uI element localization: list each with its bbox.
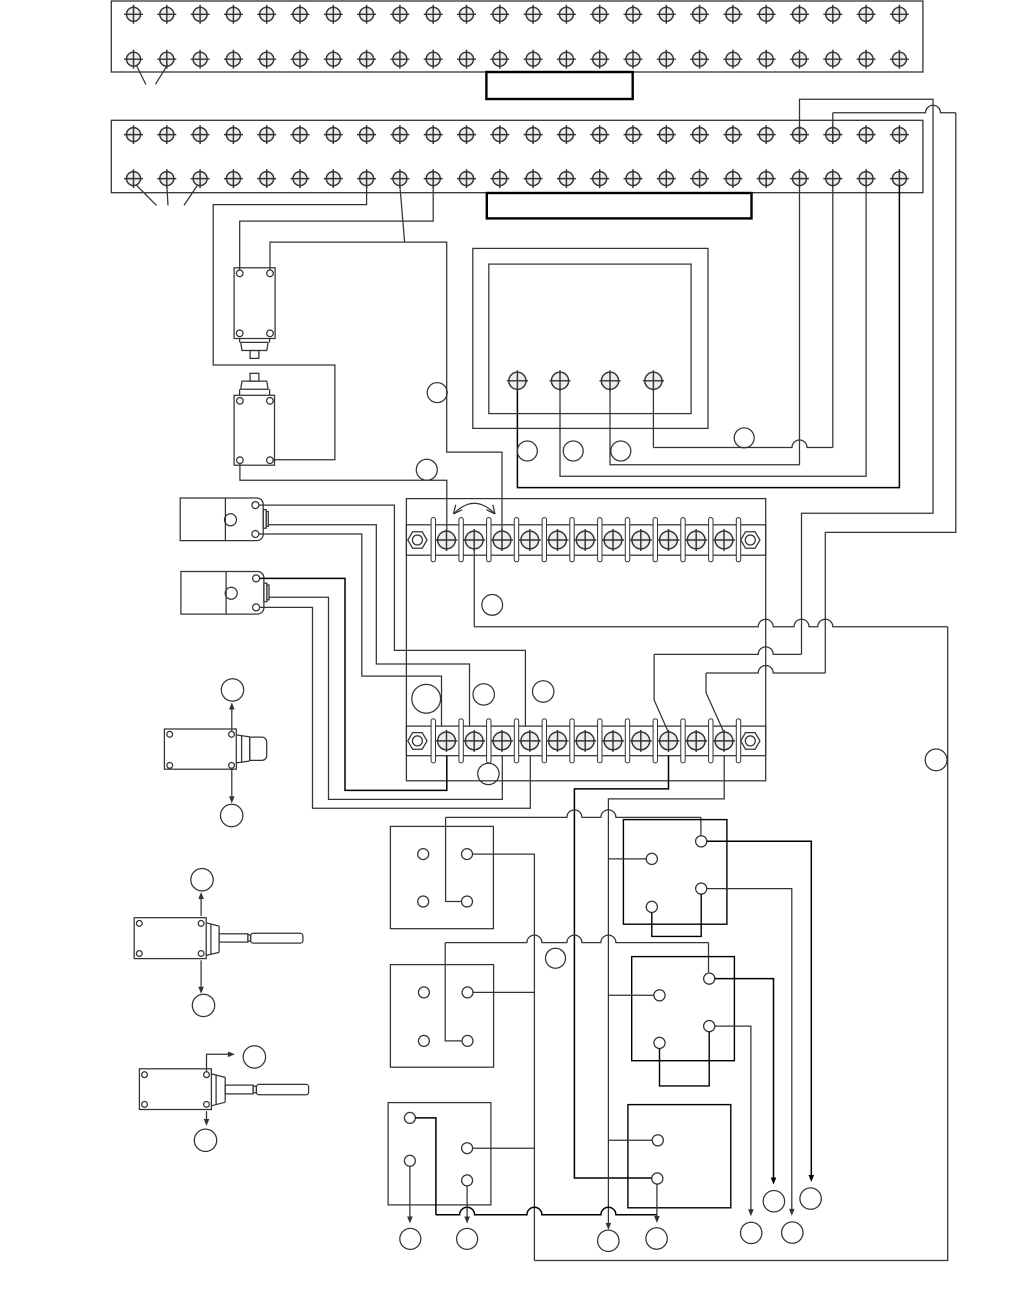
PS1 pin bottom <box>252 531 259 538</box>
arrow into callout circle from bus <box>606 1223 612 1230</box>
L2 pins <box>418 987 473 1047</box>
callout circle below LS3 <box>221 804 243 826</box>
callout circle below LS5 <box>194 1129 216 1151</box>
proximity sensor PS1 body <box>180 498 263 541</box>
limit switch LS3 body <box>164 729 236 769</box>
leader tick TB1-t1 <box>136 65 146 84</box>
limit switch LS2 body <box>234 395 274 465</box>
wire TS2 T9 to relay R3 lower pin <box>574 756 668 1178</box>
R1 U jumper bottom-left to mid-right <box>652 894 701 936</box>
callout circle above LS4 <box>191 869 213 891</box>
LS2 plunger <box>240 373 270 395</box>
L1 pins <box>418 849 473 907</box>
terminal strip TS2 bar <box>406 726 765 756</box>
callout circle above TS2 left <box>412 684 441 713</box>
PS2 connector <box>264 583 269 602</box>
proximity sensor PS2 body <box>181 572 264 615</box>
wire TS1 T2 down-right to bottom loop <box>473 549 475 627</box>
callout circle below TS2 <box>478 763 499 784</box>
PS2 pin bottom <box>253 604 260 611</box>
TS2 separator bars <box>431 719 741 763</box>
LS5 arrow down <box>204 1111 210 1126</box>
wire PS1 connector to TS2 T2 (from above) <box>268 525 469 726</box>
LS4 mounting holes <box>136 921 204 957</box>
callout circle right of LS5 arrow <box>243 1046 265 1068</box>
wire TB2 b21 to display T3 <box>610 186 800 465</box>
wire R1 left pin tap to bus 608 <box>608 858 646 860</box>
LS5 rod <box>225 1085 253 1094</box>
callout circle below R3 <box>646 1228 667 1249</box>
wire B drop to strip4 T11 <box>706 673 724 733</box>
L3 pins <box>404 1112 472 1186</box>
LS1 mounting holes <box>236 270 273 337</box>
LS5 arrow up-right <box>207 1054 229 1071</box>
wire R2 mid-right pin to bottom callout <box>715 1026 751 1213</box>
wire LS2 bottom-left to strip3 T1 <box>240 464 447 532</box>
R2 U jumper bottom-left to mid-right <box>660 1032 710 1086</box>
terminal box TB2 <box>111 120 923 192</box>
wire R2 top-right pin to bottom callout <box>715 979 774 1182</box>
wire PS2 top pin to TS2 T1 (from below) <box>260 578 447 790</box>
wire L2 bottom-right pin to relay R2 top-right pin <box>445 943 462 1041</box>
wire R2 left pin tap to bus 608 <box>608 994 654 996</box>
PS1 center hole <box>225 514 237 526</box>
terminal box TB1 <box>111 1 923 72</box>
LS2 mounting holes <box>237 398 274 464</box>
callout circle below LS4 <box>192 994 214 1016</box>
wire L1 bottom-right pin to relay R1 top-right pin <box>446 817 462 901</box>
wire L1 top-right pin to bus 534 (to bottom loop) <box>473 854 535 1260</box>
callout circle on display wire 4 <box>734 428 754 448</box>
wire L2 top-right pin tap to bus 534 <box>473 991 534 993</box>
relay box R1 <box>623 820 727 925</box>
wire A hop section at outer box edge <box>654 647 801 654</box>
LS3 plunger cap <box>250 737 267 760</box>
LS3 arrow up <box>229 703 235 732</box>
TB1 terminal row 2 <box>124 50 909 69</box>
wire TS2 T11 down to bus <box>608 756 724 1227</box>
wire PS2 connector to TS2 T3 (from below) <box>269 597 502 799</box>
R3 pins <box>652 1135 664 1184</box>
LS3 arrow down <box>229 768 235 803</box>
relay box R3 <box>628 1105 731 1208</box>
PS2 center hole <box>225 587 237 599</box>
R1 pins <box>646 836 707 913</box>
display terminal D3 <box>599 370 620 391</box>
wire R1 mid-right pin to bottom callout <box>707 889 792 1213</box>
limit switch LS4 body <box>134 918 206 959</box>
wire TB2 b23 to display T2 <box>560 186 866 476</box>
callout circle under R2 wire 2 <box>741 1222 762 1243</box>
outer box around terminal strips <box>406 499 765 781</box>
wire B: TB2 top terminal 22 to strip4 T11 <box>833 105 956 113</box>
curved double arrow over TS1 <box>454 503 496 514</box>
leader tick TB2-t2 <box>167 186 168 205</box>
TS1 right hex nut <box>741 532 760 549</box>
PS1 divider <box>224 498 226 541</box>
LS5 collar <box>211 1074 225 1106</box>
wire A: TB2 top terminal 21 to strip4 T9 <box>800 99 934 654</box>
relay box R2 <box>632 957 735 1061</box>
terminal strip TS1 bar <box>406 525 765 555</box>
callout circle below L3 left <box>400 1228 421 1249</box>
wire B hop section at outer box edge <box>706 666 825 674</box>
wire L3 top-left pin to R3 arrow line <box>415 1118 436 1215</box>
limit switch LS1 body <box>234 268 275 339</box>
LS3 mounting holes <box>167 731 235 768</box>
callout circle below L3 right <box>457 1228 478 1249</box>
leader tick TB2-t3 <box>184 185 198 206</box>
wire TB2 b22 to display T4 (hops over b21 wire) <box>832 186 834 448</box>
callout circle under R2 wire 1 <box>763 1191 784 1212</box>
PS2 divider <box>225 572 227 615</box>
PS1 pin top <box>252 502 259 509</box>
callout circle on display wire 1 <box>517 441 537 461</box>
wire TB2 b24 to display T1 <box>517 186 899 488</box>
LS4 arrow up <box>198 892 204 916</box>
label box B <box>487 193 752 218</box>
TB1 terminal row 1 <box>124 5 909 24</box>
TS1 separator bars <box>431 518 741 562</box>
display terminal D2 <box>549 370 570 391</box>
TB2 terminal row 2 <box>124 169 909 188</box>
LS4 rod <box>219 934 248 942</box>
TS2 screw terminals <box>436 730 736 752</box>
display terminal D1 <box>507 370 528 391</box>
LS5 mounting holes <box>142 1072 210 1108</box>
wire PS2 bottom pin to TS2 T4 (from below) <box>260 607 531 808</box>
LS5 handle <box>256 1084 308 1094</box>
callout circle under R1 wire 1 <box>800 1188 821 1209</box>
LS3 plunger collar <box>236 735 249 763</box>
TB2 terminal row 1 <box>124 125 909 144</box>
wire TB2 b7 to LS2 bottom-right hole <box>213 186 366 460</box>
wire R3 upper pin tap to bus 608 <box>608 1139 652 1141</box>
display unit outer box <box>473 248 708 428</box>
callout circle above TS2 mid <box>473 684 494 705</box>
callout circle under R1 wire 2 <box>782 1222 803 1243</box>
L3 center-low arrow down <box>464 1186 470 1224</box>
TS1 screw terminals <box>436 529 736 551</box>
wire R1 top-right pin to bottom callout <box>707 841 812 1178</box>
display unit inner box <box>489 264 691 414</box>
R3 lower pin arrow down <box>654 1184 660 1223</box>
wire L3 center pin tap to bus 534 <box>473 1147 535 1149</box>
display terminal D4 <box>643 370 664 391</box>
callout circle on display wire 3 <box>611 441 631 461</box>
TS2 right hex nut <box>741 733 760 750</box>
wire TB2 b9 diagonal joining LS1 wire <box>400 186 405 242</box>
PS2 pin top <box>253 575 260 582</box>
wire LS1 top-right to strip3 T3 <box>270 242 502 531</box>
R2 pins <box>654 973 715 1049</box>
label box A <box>486 72 632 99</box>
wire TB2 b10 to LS1 top-left hole <box>240 186 434 270</box>
callout circle on display wire 2 <box>563 441 583 461</box>
callout circle on LS1 wire <box>427 383 447 403</box>
callout circle at bus end <box>598 1230 619 1251</box>
leader tick TB2-t1 <box>136 185 157 206</box>
LS4 arrow down <box>198 960 204 994</box>
callout circle on right trunk <box>925 749 947 771</box>
TS2 left hex nut <box>408 733 427 750</box>
relay box L3 <box>388 1103 491 1205</box>
relay box L1 <box>390 826 493 928</box>
leader tick TB1-t2 <box>156 65 168 84</box>
callout circle above TS2 right <box>533 681 554 702</box>
callout circle on TS1 T2 wire <box>482 595 503 616</box>
callout circle between L2 and R2 <box>546 948 566 968</box>
wire PS1 top pin to TS2 T4 (from above) <box>259 505 526 726</box>
LS4 joint <box>248 935 251 941</box>
wire PS1 bottom pin to TS2 T1 (from above) <box>259 534 442 726</box>
LS1 plunger <box>240 339 270 359</box>
LS4 handle <box>251 933 303 943</box>
wire A drop to strip4 T9 <box>654 654 668 732</box>
callout circle above LS3 <box>221 679 243 701</box>
LS4 collar <box>206 923 219 956</box>
L3 left-mid arrow down <box>407 1166 413 1223</box>
relay box L2 <box>390 965 493 1068</box>
TS1 left hex nut <box>408 532 427 549</box>
limit switch LS5 body <box>139 1069 211 1110</box>
callout circle on LS2 wire <box>416 459 437 480</box>
PS1 connector <box>263 510 268 529</box>
LS5 joint <box>253 1086 256 1093</box>
